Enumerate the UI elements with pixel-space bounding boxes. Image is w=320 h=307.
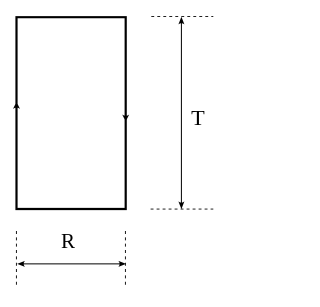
up arrowhead on left edge: [13, 102, 20, 109]
horizontal dimension arrow line R: [20, 263, 124, 265]
rectangle loop: [17, 17, 126, 209]
down arrowhead on right edge: [122, 115, 129, 122]
right dashed extension line (R): [124, 231, 126, 285]
bottom dashed extension line (T): [151, 208, 214, 210]
left arrowhead of R dimension: [17, 261, 25, 267]
right arrowhead of R dimension: [118, 261, 126, 267]
left dashed extension line (R): [15, 231, 17, 285]
bottom arrowhead of T dimension: [178, 201, 184, 209]
vertical dimension arrow line T: [180, 19, 182, 207]
top arrowhead of T dimension: [178, 17, 184, 25]
svg-text:R: R: [61, 229, 75, 253]
top dashed extension line (T): [151, 16, 213, 18]
svg-text:T: T: [191, 106, 205, 130]
